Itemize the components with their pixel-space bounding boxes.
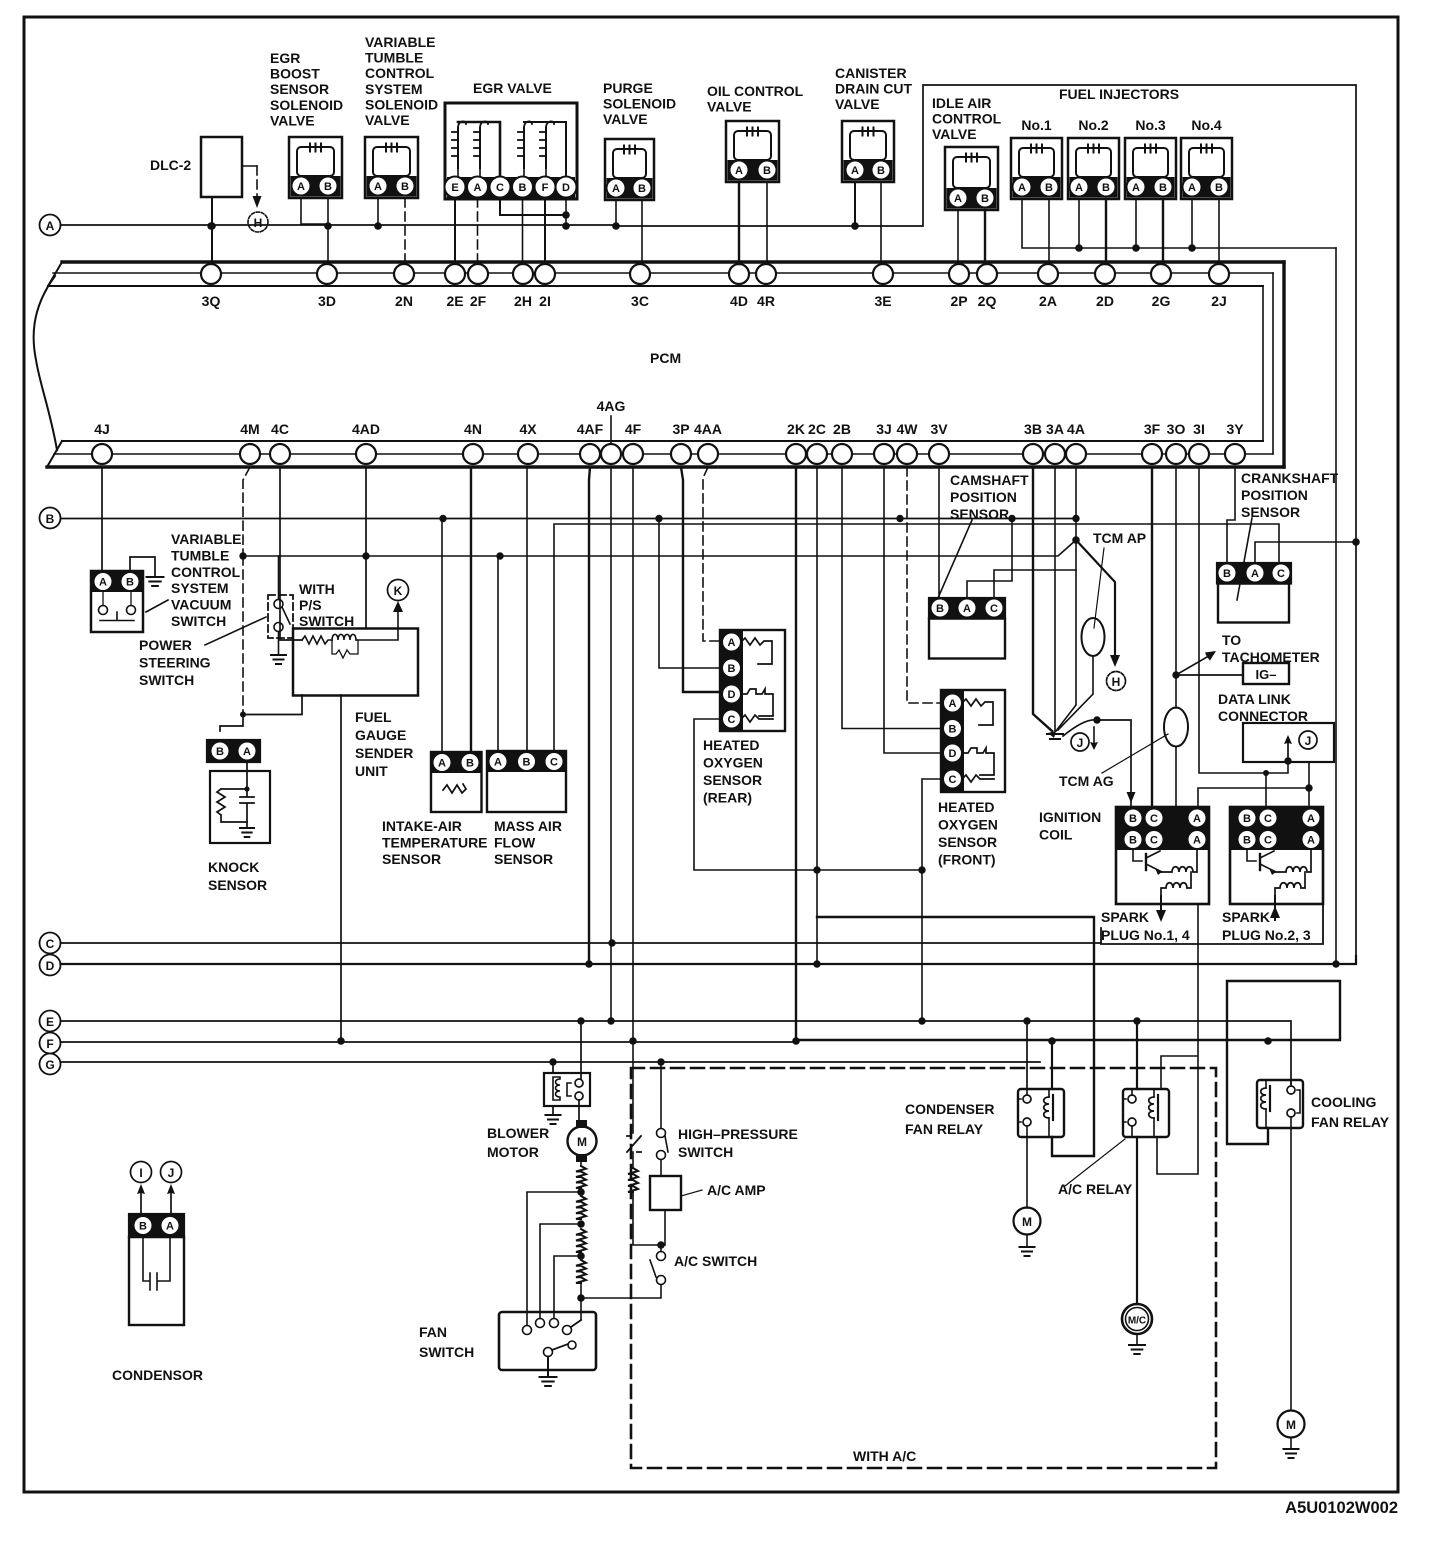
svg-text:B: B	[949, 724, 957, 736]
svg-text:B: B	[324, 181, 332, 193]
svg-text:CRANKSHAFT: CRANKSHAFT	[1241, 470, 1339, 486]
svg-text:PLUG No.2, 3: PLUG No.2, 3	[1222, 927, 1311, 943]
svg-text:B: B	[126, 577, 134, 589]
wire 4W dashed to front A	[907, 467, 943, 703]
wire camshaft C jog	[994, 570, 1076, 598]
wire 2B to front B	[842, 467, 943, 729]
wire 4M dashed	[243, 467, 250, 556]
svg-text:FUEL: FUEL	[355, 709, 392, 725]
svg-text:2Q: 2Q	[978, 293, 997, 309]
svg-text:4AD: 4AD	[352, 421, 380, 437]
svg-text:BOOST: BOOST	[270, 66, 320, 82]
wire 4AF to bus D	[589, 467, 590, 964]
svg-text:CONNECTOR: CONNECTOR	[1218, 708, 1308, 724]
svg-text:VALVE: VALVE	[835, 96, 880, 112]
svg-text:C: C	[1150, 835, 1158, 847]
TCM AP ellipse	[1082, 618, 1105, 656]
svg-text:STEERING: STEERING	[139, 655, 211, 671]
node E circle	[40, 1011, 61, 1032]
ignition coil block 1	[1116, 807, 1209, 904]
with A/C dashed box	[631, 1068, 1216, 1468]
wire EGR boost B to 3D	[327, 198, 329, 264]
svg-text:A: A	[46, 219, 55, 233]
wire canister A to bus A	[854, 182, 856, 226]
node C circle	[40, 933, 61, 954]
arc wire to ignition coil	[1063, 720, 1131, 792]
wire camshaft A to bus B	[967, 519, 1012, 599]
spark output arrow block 1	[1160, 896, 1162, 910]
svg-text:TCM AP: TCM AP	[1093, 530, 1146, 546]
svg-text:VALVE: VALVE	[932, 126, 977, 142]
wire mid bus to TCM AP junction	[243, 540, 1076, 556]
node A circle	[40, 215, 61, 236]
fan speed branch wires	[527, 1192, 581, 1325]
svg-text:3V: 3V	[930, 421, 948, 437]
wire purge B to 3C	[641, 200, 643, 264]
svg-text:BLOWER: BLOWER	[487, 1125, 549, 1141]
svg-text:VARIABLE: VARIABLE	[365, 34, 436, 50]
svg-text:D: D	[562, 182, 570, 194]
svg-text:EGR: EGR	[270, 50, 300, 66]
TCM AP output arrow to H	[1076, 540, 1115, 655]
svg-text:CANISTER: CANISTER	[835, 65, 907, 81]
node J circle with arrow	[1071, 733, 1089, 751]
PCM module band	[34, 262, 1284, 467]
svg-text:PCM: PCM	[650, 350, 681, 366]
svg-text:VALVE: VALVE	[707, 99, 752, 115]
wire purge A to bus A	[615, 200, 617, 226]
thermal protector and resistor column	[632, 1041, 634, 1133]
svg-text:M: M	[577, 1135, 587, 1149]
wire MAF A to mid bus	[497, 556, 499, 751]
wire 2C long vertical	[816, 467, 818, 964]
svg-text:MASS AIR: MASS AIR	[494, 818, 562, 834]
wire oil control B to 4R	[766, 182, 768, 264]
svg-text:A: A	[1193, 835, 1201, 847]
svg-text:C: C	[1150, 813, 1158, 825]
svg-text:2N: 2N	[395, 293, 413, 309]
svg-text:4C: 4C	[271, 421, 289, 437]
svg-text:SENDER: SENDER	[355, 745, 413, 761]
wire 3I to DLC and coil 2	[1199, 467, 1288, 773]
wire P/S switch to ground	[278, 632, 280, 655]
svg-text:A: A	[735, 165, 743, 177]
svg-text:4AA: 4AA	[694, 421, 722, 437]
svg-text:B: B	[1129, 835, 1137, 847]
svg-text:No.2: No.2	[1078, 117, 1109, 133]
svg-text:3Y: 3Y	[1226, 421, 1244, 437]
svg-text:TUMBLE: TUMBLE	[171, 547, 229, 563]
svg-text:C: C	[496, 182, 504, 194]
svg-text:SWITCH: SWITCH	[419, 1344, 474, 1360]
svg-text:3E: 3E	[874, 293, 891, 309]
svg-text:B: B	[1045, 182, 1053, 194]
svg-text:TCM AG: TCM AG	[1059, 773, 1114, 789]
svg-text:SWITCH: SWITCH	[171, 613, 226, 629]
svg-text:COOLING: COOLING	[1311, 1094, 1376, 1110]
svg-text:SWITCH: SWITCH	[139, 672, 194, 688]
svg-text:J: J	[1305, 734, 1312, 748]
A/C compressor clutch M/C	[1136, 1137, 1138, 1304]
wire canister B to 3E	[881, 182, 883, 264]
svg-text:SWITCH: SWITCH	[678, 1144, 733, 1160]
svg-text:B: B	[638, 183, 646, 195]
svg-text:B: B	[401, 181, 409, 193]
svg-text:SOLENOID: SOLENOID	[270, 97, 343, 113]
svg-text:M: M	[1022, 1215, 1032, 1229]
EGR valve coils	[457, 128, 459, 168]
spark output arrow block 2	[1274, 896, 1276, 920]
svg-text:TUMBLE: TUMBLE	[365, 50, 423, 66]
svg-text:VACUUM: VACUUM	[171, 597, 231, 613]
svg-text:M: M	[1286, 1418, 1296, 1432]
svg-text:B: B	[763, 165, 771, 177]
wire oil control A to 4D	[738, 182, 740, 264]
wire 3F to coil 1 (thick)	[1151, 467, 1153, 807]
svg-text:SENSOR: SENSOR	[270, 81, 329, 97]
svg-text:A: A	[1132, 182, 1140, 194]
svg-text:3A: 3A	[1046, 421, 1064, 437]
svg-text:2F: 2F	[470, 293, 487, 309]
circle K	[388, 580, 409, 601]
svg-text:4D: 4D	[730, 293, 748, 309]
svg-text:No.1: No.1	[1021, 117, 1052, 133]
wire 3A down	[1054, 467, 1056, 731]
svg-text:SENSOR: SENSOR	[494, 851, 553, 867]
svg-text:3D: 3D	[318, 293, 336, 309]
EGR valve wires to PCM	[454, 198, 456, 264]
svg-text:2J: 2J	[1211, 293, 1227, 309]
svg-text:SENSOR: SENSOR	[208, 877, 267, 893]
bus D wire	[61, 956, 1357, 964]
svg-text:B: B	[981, 193, 989, 205]
svg-text:SOLENOID: SOLENOID	[603, 96, 676, 112]
svg-text:A/C AMP: A/C AMP	[707, 1182, 766, 1198]
svg-text:B: B	[1129, 813, 1137, 825]
svg-text:VARIABLE: VARIABLE	[171, 531, 242, 547]
bus B wire	[61, 518, 1077, 520]
svg-text:4A: 4A	[1067, 421, 1085, 437]
wire DLC-2 to H	[242, 165, 257, 167]
svg-text:A: A	[243, 746, 251, 758]
wire vacuum switch B to ground	[130, 557, 155, 576]
svg-text:B: B	[1223, 568, 1231, 580]
svg-text:VALVE: VALVE	[270, 112, 315, 128]
svg-text:E: E	[46, 1015, 54, 1029]
wire 4F long vertical	[632, 467, 634, 1041]
PCM top terminal row	[201, 264, 221, 284]
wire 3J to front D	[884, 467, 943, 753]
svg-text:FAN RELAY: FAN RELAY	[905, 1121, 984, 1137]
wire 4X to MAF B	[526, 467, 528, 751]
svg-text:3P: 3P	[672, 421, 689, 437]
svg-text:2I: 2I	[539, 293, 551, 309]
svg-text:B: B	[523, 757, 531, 769]
svg-text:4M: 4M	[240, 421, 259, 437]
svg-text:SPARK: SPARK	[1222, 909, 1270, 925]
svg-text:DLC-2: DLC-2	[150, 157, 191, 173]
svg-text:F: F	[542, 182, 549, 194]
svg-text:POWER: POWER	[139, 637, 192, 653]
svg-text:B: B	[1215, 182, 1223, 194]
svg-text:2K: 2K	[787, 421, 805, 437]
svg-text:B: B	[46, 512, 55, 526]
svg-text:P/S: P/S	[299, 597, 322, 613]
wire MAF C to crankshaft C	[554, 524, 1279, 751]
wire crankshaft A to loop	[1255, 542, 1356, 563]
svg-text:TO: TO	[1222, 632, 1241, 648]
svg-text:B: B	[728, 663, 736, 675]
svg-text:B: B	[1243, 813, 1251, 825]
cooling fan motor M	[1290, 1128, 1292, 1410]
svg-text:K: K	[394, 584, 403, 598]
svg-text:A: A	[99, 577, 107, 589]
wire 3B down (thick)	[1033, 467, 1052, 731]
svg-text:A5U0102W002: A5U0102W002	[1285, 1499, 1398, 1517]
wire bus B to rear B	[659, 519, 722, 669]
svg-text:CONTROL: CONTROL	[932, 111, 1002, 127]
svg-text:HEATED: HEATED	[703, 737, 760, 753]
A/C amp	[650, 1176, 681, 1210]
wire EGR boost A to bus A	[301, 198, 328, 224]
svg-text:DRAIN CUT: DRAIN CUT	[835, 81, 912, 97]
wire fuel gauge unit to 4M wire	[243, 695, 302, 715]
svg-text:D: D	[728, 689, 736, 701]
svg-text:CAMSHAFT: CAMSHAFT	[950, 472, 1029, 488]
svg-text:MOTOR: MOTOR	[487, 1144, 539, 1160]
wire VTCS solenoid B to 2N (dashed)	[404, 198, 406, 264]
svg-text:C: C	[550, 757, 558, 769]
svg-text:IG–: IG–	[1256, 667, 1277, 682]
wire 3Y to crankshaft B	[1227, 467, 1235, 563]
svg-text:IDLE AIR: IDLE AIR	[932, 95, 991, 111]
svg-text:A: A	[494, 757, 502, 769]
svg-text:C: C	[728, 714, 736, 726]
svg-text:SENSOR: SENSOR	[938, 834, 997, 850]
svg-text:C: C	[1264, 835, 1272, 847]
svg-text:3O: 3O	[1167, 421, 1186, 437]
svg-text:SYSTEM: SYSTEM	[171, 580, 229, 596]
svg-text:A: A	[612, 183, 620, 195]
svg-text:4F: 4F	[625, 421, 642, 437]
ignition coil block 2	[1230, 807, 1323, 904]
wire DLC to coil A pins	[1198, 762, 1309, 807]
svg-text:3B: 3B	[1024, 421, 1042, 437]
svg-text:TEMPERATURE: TEMPERATURE	[382, 835, 488, 851]
wire rear C down to junction	[694, 719, 922, 870]
svg-text:J: J	[1077, 736, 1084, 750]
PCM bottom terminal row	[92, 444, 112, 464]
svg-text:WITH A/C: WITH A/C	[853, 1448, 916, 1464]
wire 4J to vacuum switch A	[101, 467, 103, 571]
svg-text:A: A	[963, 603, 971, 615]
wire fuel gauge unit to bus F	[340, 695, 342, 1041]
node B circle	[40, 508, 61, 529]
wire 4AD into fuel gauge unit	[365, 467, 367, 629]
svg-text:B: B	[466, 758, 474, 770]
node I circle	[131, 1162, 152, 1183]
blower resistor chain	[580, 1162, 582, 1166]
wire VTCS solenoid A to bus A	[377, 198, 379, 226]
wire 4AG down to buses C and E	[610, 467, 612, 1021]
svg-text:A: A	[374, 181, 382, 193]
svg-text:A: A	[1307, 813, 1315, 825]
svg-text:2C: 2C	[808, 421, 826, 437]
wire relay feed to condenser fan relay coil	[817, 917, 1094, 1156]
svg-text:B: B	[216, 746, 224, 758]
svg-text:M/C: M/C	[1128, 1316, 1146, 1327]
wire 3O to TCM AG	[1175, 467, 1177, 708]
svg-text:H: H	[254, 216, 263, 230]
bus F wire	[61, 1041, 797, 1043]
injector A-pin common supply wire	[1022, 199, 1336, 248]
svg-text:A: A	[1251, 568, 1259, 580]
svg-text:(REAR): (REAR)	[703, 790, 752, 806]
svg-text:C: C	[990, 603, 998, 615]
svg-text:3J: 3J	[876, 421, 892, 437]
svg-text:B: B	[936, 603, 944, 615]
blower unit ground	[552, 1106, 554, 1114]
bus G wire	[61, 1061, 1041, 1063]
svg-text:SENSOR: SENSOR	[382, 851, 441, 867]
svg-text:A: A	[851, 165, 859, 177]
wire IAT A to bus B	[441, 519, 443, 753]
svg-text:4R: 4R	[757, 293, 775, 309]
svg-text:2H: 2H	[514, 293, 532, 309]
svg-text:POSITION: POSITION	[1241, 487, 1308, 503]
svg-text:CONTROL: CONTROL	[365, 65, 435, 81]
svg-text:A: A	[1018, 182, 1026, 194]
svg-text:4N: 4N	[464, 421, 482, 437]
svg-text:A/C SWITCH: A/C SWITCH	[674, 1253, 757, 1269]
svg-text:2A: 2A	[1039, 293, 1057, 309]
wire front C to bus E	[922, 779, 943, 1021]
svg-text:3I: 3I	[1193, 421, 1205, 437]
bus C wire	[61, 942, 1102, 944]
svg-text:4AG: 4AG	[597, 398, 626, 414]
svg-text:INTAKE-AIR: INTAKE-AIR	[382, 818, 462, 834]
svg-text:A: A	[166, 1221, 174, 1233]
wire 4AA dashed to rear A	[703, 467, 722, 641]
svg-text:2B: 2B	[833, 421, 851, 437]
svg-text:IGNITION: IGNITION	[1039, 809, 1101, 825]
svg-text:CONDENSER: CONDENSER	[905, 1101, 994, 1117]
svg-text:E: E	[451, 182, 458, 194]
svg-text:PURGE: PURGE	[603, 80, 653, 96]
svg-text:4AF: 4AF	[577, 421, 604, 437]
bus A wire with loop around injectors	[61, 85, 1357, 956]
svg-text:FLOW: FLOW	[494, 835, 536, 851]
svg-text:G: G	[45, 1058, 54, 1072]
svg-text:B: B	[1102, 182, 1110, 194]
svg-text:A: A	[1075, 182, 1083, 194]
svg-text:OXYGEN: OXYGEN	[938, 817, 998, 833]
svg-text:CONTROL: CONTROL	[171, 564, 241, 580]
wire 4N to IAT B	[470, 467, 472, 752]
node D circle	[40, 955, 61, 976]
svg-text:FAN RELAY: FAN RELAY	[1311, 1114, 1390, 1130]
svg-text:HEATED: HEATED	[938, 799, 995, 815]
svg-text:B: B	[1243, 835, 1251, 847]
svg-text:PLUG No.1, 4: PLUG No.1, 4	[1101, 927, 1190, 943]
svg-text:H: H	[1112, 675, 1121, 689]
svg-text:2G: 2G	[1152, 293, 1171, 309]
svg-text:C: C	[1264, 813, 1272, 825]
node H circle	[1107, 672, 1126, 691]
svg-text:SENSOR: SENSOR	[950, 506, 1009, 522]
svg-text:D: D	[949, 748, 957, 760]
svg-text:FAN: FAN	[419, 1324, 447, 1340]
svg-text:3F: 3F	[1144, 421, 1161, 437]
fuel gauge rheostat	[302, 636, 332, 644]
svg-text:A: A	[1188, 182, 1196, 194]
svg-text:SYSTEM: SYSTEM	[365, 81, 423, 97]
svg-text:WITH: WITH	[299, 581, 335, 597]
svg-text:GAUGE: GAUGE	[355, 727, 406, 743]
TCM AG ellipse	[1164, 708, 1188, 747]
svg-text:A: A	[1307, 835, 1315, 847]
svg-text:OXYGEN: OXYGEN	[703, 755, 763, 771]
A/C relay coil loop to DLC net	[1157, 904, 1198, 1174]
svg-text:I: I	[139, 1166, 142, 1180]
svg-text:2E: 2E	[446, 293, 463, 309]
wire idle air B to 2Q	[984, 210, 986, 264]
svg-text:2D: 2D	[1096, 293, 1114, 309]
svg-text:4X: 4X	[519, 421, 537, 437]
svg-text:A: A	[438, 758, 446, 770]
svg-text:SENSOR: SENSOR	[1241, 504, 1300, 520]
node F circle	[40, 1033, 61, 1054]
node H circle	[248, 212, 268, 232]
wires with arrows up to I and J	[140, 1193, 142, 1214]
svg-text:C: C	[1277, 568, 1285, 580]
svg-text:A: A	[949, 698, 957, 710]
wire P/S switch to mid bus	[278, 556, 280, 600]
svg-text:A: A	[954, 193, 962, 205]
svg-text:FUEL INJECTORS: FUEL INJECTORS	[1059, 86, 1179, 102]
svg-text:No.4: No.4	[1191, 117, 1222, 133]
svg-text:SOLENOID: SOLENOID	[365, 96, 438, 112]
A/C relay	[1123, 1089, 1169, 1137]
wire 2K to bus F	[795, 467, 797, 1041]
svg-text:B: B	[519, 182, 527, 194]
IG- box	[1176, 674, 1243, 676]
svg-text:F: F	[46, 1037, 53, 1051]
bus E wire	[61, 1021, 1292, 1084]
blower resistor unit	[544, 1073, 590, 1106]
svg-text:SENSOR: SENSOR	[703, 772, 762, 788]
svg-text:UNIT: UNIT	[355, 763, 388, 779]
svg-text:A: A	[1193, 813, 1201, 825]
svg-text:VALVE: VALVE	[603, 111, 648, 127]
svg-text:KNOCK: KNOCK	[208, 859, 259, 875]
svg-text:2P: 2P	[950, 293, 967, 309]
svg-text:SWITCH: SWITCH	[299, 613, 354, 629]
injector B-pin wires to PCM	[1048, 199, 1050, 264]
svg-text:B: B	[877, 165, 885, 177]
svg-text:C: C	[949, 774, 957, 786]
svg-text:J: J	[168, 1166, 175, 1180]
svg-text:OIL CONTROL: OIL CONTROL	[707, 83, 804, 99]
svg-text:DATA LINK: DATA LINK	[1218, 691, 1291, 707]
node J circle in DLC	[1299, 731, 1317, 749]
TCM ground cluster	[1047, 734, 1063, 739]
wire idle air A to 2P	[957, 210, 959, 264]
svg-text:B: B	[1159, 182, 1167, 194]
node J circle left	[161, 1162, 182, 1183]
ignition frame bottom	[1101, 904, 1323, 944]
wire 3V to camshaft B	[938, 467, 940, 598]
